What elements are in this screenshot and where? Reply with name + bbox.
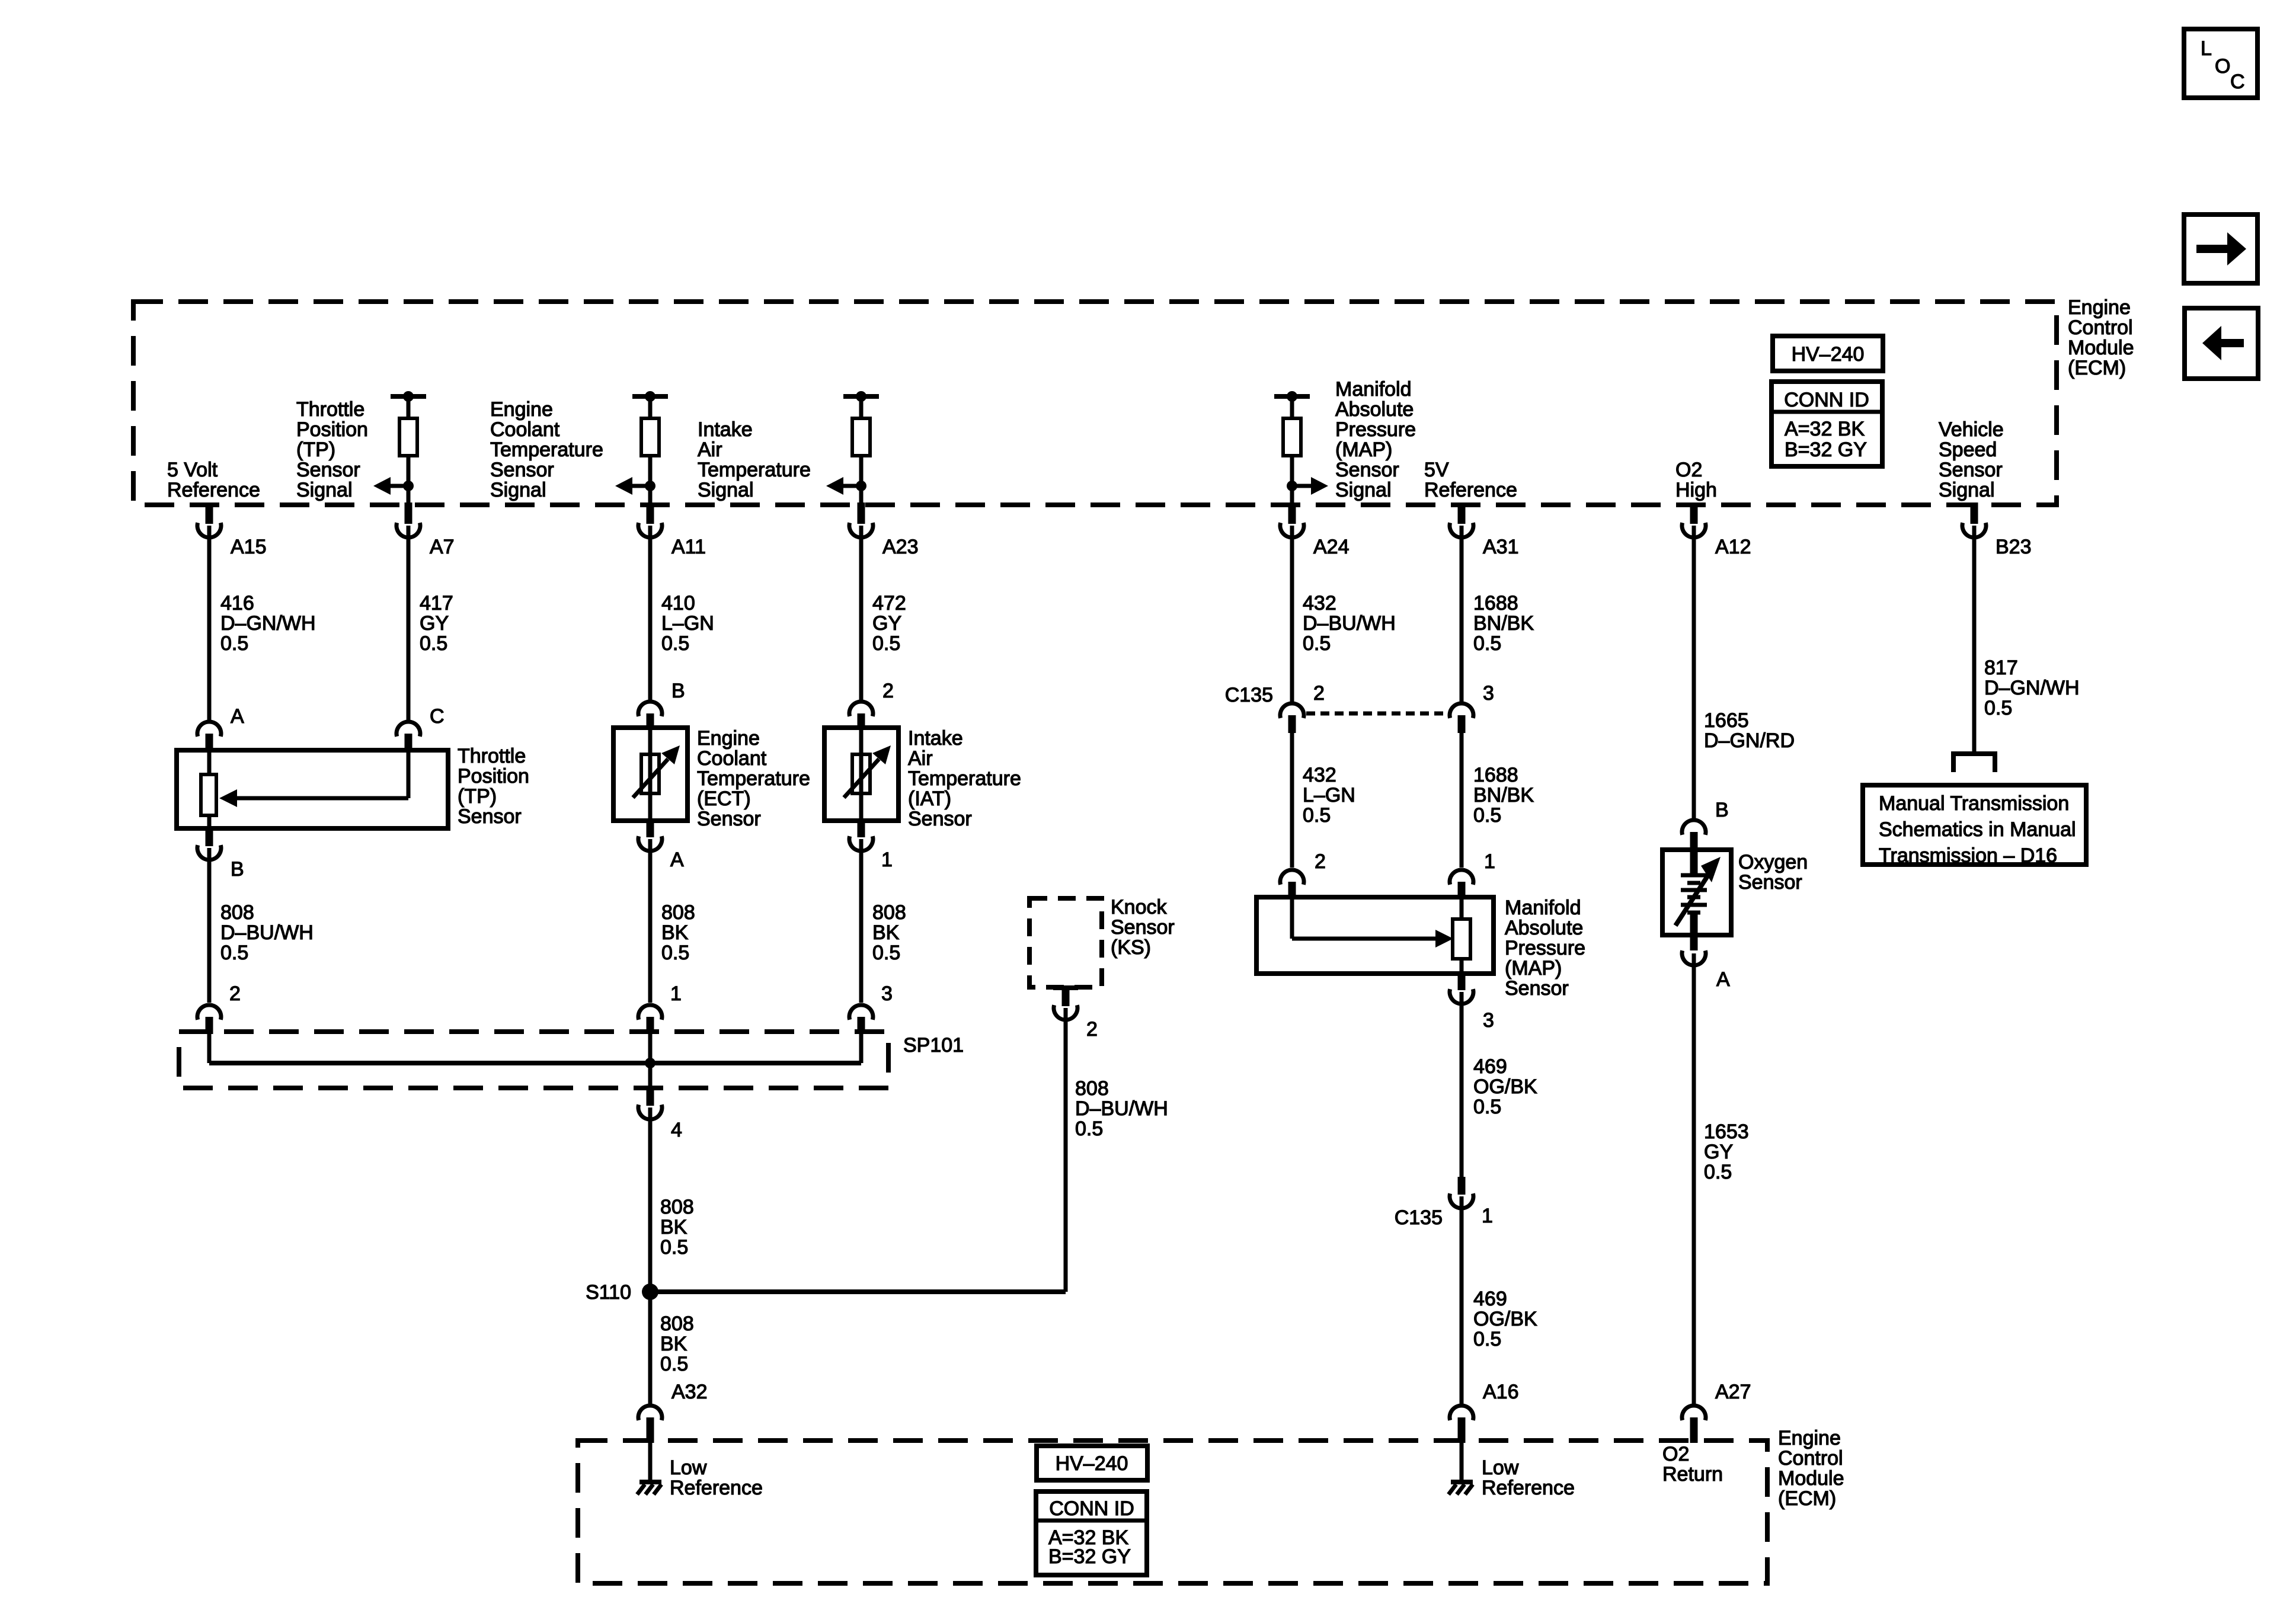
svg-text:0.5: 0.5 <box>1984 697 2012 719</box>
svg-text:1665: 1665 <box>1704 709 1749 732</box>
svg-text:CONN ID: CONN ID <box>1784 389 1869 411</box>
svg-text:A15: A15 <box>231 536 267 558</box>
svg-text:GY: GY <box>1704 1141 1733 1163</box>
svg-text:Position: Position <box>458 765 529 788</box>
svg-text:B: B <box>1715 799 1729 821</box>
svg-text:Absolute: Absolute <box>1335 398 1414 421</box>
svg-text:D–GN/WH: D–GN/WH <box>1984 677 2080 699</box>
svg-text:Pressure: Pressure <box>1505 937 1585 959</box>
svg-text:HV–240: HV–240 <box>1056 1452 1128 1475</box>
svg-text:B23: B23 <box>1996 536 2032 558</box>
svg-text:Engine: Engine <box>697 727 760 750</box>
svg-text:0.5: 0.5 <box>220 632 248 655</box>
svg-text:A11: A11 <box>671 536 706 558</box>
svg-text:C135: C135 <box>1395 1206 1443 1229</box>
svg-text:D–GN/WH: D–GN/WH <box>220 612 316 635</box>
svg-text:A16: A16 <box>1483 1381 1519 1403</box>
svg-text:Coolant: Coolant <box>697 747 767 770</box>
svg-text:Sensor: Sensor <box>1738 871 1802 894</box>
svg-text:BK: BK <box>872 921 900 944</box>
svg-text:A: A <box>1716 968 1730 991</box>
svg-text:417: 417 <box>420 592 453 614</box>
svg-text:2: 2 <box>1086 1018 1098 1041</box>
svg-text:0.5: 0.5 <box>1473 1096 1501 1118</box>
svg-text:Vehicle: Vehicle <box>1939 418 2004 441</box>
svg-text:A=32 BK: A=32 BK <box>1785 418 1865 440</box>
svg-text:Sensor: Sensor <box>1505 977 1569 1000</box>
svg-text:469: 469 <box>1473 1055 1507 1078</box>
svg-text:BK: BK <box>660 1216 687 1238</box>
svg-text:B=32 GY: B=32 GY <box>1785 438 1867 461</box>
svg-text:C135: C135 <box>1225 684 1273 706</box>
svg-text:Pressure: Pressure <box>1335 418 1416 441</box>
svg-text:B: B <box>671 680 685 702</box>
svg-text:Temperature: Temperature <box>490 438 603 461</box>
svg-text:0.5: 0.5 <box>1473 632 1501 655</box>
svg-text:0.5: 0.5 <box>1704 1161 1732 1183</box>
svg-text:Manifold: Manifold <box>1505 897 1581 919</box>
svg-text:0.5: 0.5 <box>660 1236 688 1259</box>
svg-text:Module: Module <box>1778 1467 1844 1490</box>
svg-text:BK: BK <box>661 921 689 944</box>
svg-text:1: 1 <box>670 982 682 1005</box>
svg-text:A: A <box>231 705 244 728</box>
svg-text:3: 3 <box>1483 682 1494 705</box>
svg-text:2: 2 <box>1313 682 1325 705</box>
svg-text:(TP): (TP) <box>296 438 335 461</box>
svg-text:D–BU/WH: D–BU/WH <box>1303 612 1396 635</box>
svg-text:1: 1 <box>881 849 893 871</box>
svg-text:A32: A32 <box>671 1381 708 1403</box>
svg-text:808: 808 <box>660 1313 694 1335</box>
svg-text:0.5: 0.5 <box>661 632 689 655</box>
svg-text:0.5: 0.5 <box>1303 804 1331 827</box>
svg-text:3: 3 <box>1483 1009 1494 1032</box>
svg-text:Reference: Reference <box>167 479 260 501</box>
svg-text:808: 808 <box>1075 1077 1109 1100</box>
svg-text:L–GN: L–GN <box>661 612 714 635</box>
svg-text:D–BU/WH: D–BU/WH <box>1075 1097 1168 1120</box>
svg-text:(MAP): (MAP) <box>1335 438 1392 461</box>
svg-text:D–BU/WH: D–BU/WH <box>220 921 314 944</box>
svg-text:410: 410 <box>661 592 695 614</box>
svg-text:0.5: 0.5 <box>1075 1118 1103 1140</box>
svg-text:O2: O2 <box>1675 459 1702 481</box>
svg-text:C: C <box>430 705 445 728</box>
svg-text:817: 817 <box>1984 657 2018 679</box>
svg-text:OG/BK: OG/BK <box>1473 1308 1537 1330</box>
svg-text:A12: A12 <box>1715 536 1751 558</box>
svg-text:Signal: Signal <box>296 479 353 501</box>
svg-text:O2: O2 <box>1662 1443 1689 1465</box>
svg-text:Signal: Signal <box>698 479 754 501</box>
svg-text:4: 4 <box>671 1119 682 1141</box>
svg-text:472: 472 <box>872 592 906 614</box>
svg-text:5V: 5V <box>1424 459 1449 481</box>
svg-text:0.5: 0.5 <box>661 942 689 964</box>
svg-text:Intake: Intake <box>698 418 753 441</box>
svg-text:432: 432 <box>1303 592 1336 614</box>
svg-text:GY: GY <box>872 612 901 635</box>
svg-text:1: 1 <box>1484 850 1495 873</box>
svg-text:Signal: Signal <box>1939 479 1995 501</box>
svg-text:SP101: SP101 <box>903 1034 964 1057</box>
svg-text:GY: GY <box>420 612 449 635</box>
svg-text:A: A <box>670 849 684 871</box>
svg-text:(TP): (TP) <box>458 785 497 808</box>
svg-text:Transmission – D16: Transmission – D16 <box>1879 844 2057 867</box>
svg-text:BN/BK: BN/BK <box>1473 784 1534 806</box>
svg-text:A23: A23 <box>882 536 919 558</box>
svg-text:3: 3 <box>881 982 893 1005</box>
svg-text:Control: Control <box>2068 316 2133 339</box>
svg-text:Manifold: Manifold <box>1335 378 1412 401</box>
svg-text:808: 808 <box>220 901 254 924</box>
svg-text:2: 2 <box>1315 850 1326 873</box>
svg-text:808: 808 <box>661 901 695 924</box>
svg-text:1688: 1688 <box>1473 592 1518 614</box>
svg-text:Reference: Reference <box>1424 479 1517 501</box>
svg-text:L–GN: L–GN <box>1303 784 1355 806</box>
svg-text:High: High <box>1675 479 1717 501</box>
svg-text:Oxygen: Oxygen <box>1738 851 1808 873</box>
svg-text:0.5: 0.5 <box>660 1353 688 1375</box>
svg-text:Temperature: Temperature <box>698 459 811 481</box>
svg-text:O: O <box>2215 55 2230 78</box>
svg-text:808: 808 <box>872 901 906 924</box>
svg-text:Reference: Reference <box>1482 1477 1575 1499</box>
svg-text:Sensor: Sensor <box>697 808 761 830</box>
svg-text:0.5: 0.5 <box>872 632 900 655</box>
svg-text:Temperature: Temperature <box>908 767 1021 790</box>
svg-text:Schematics in Manual: Schematics in Manual <box>1879 818 2076 841</box>
svg-text:B: B <box>231 858 244 881</box>
svg-text:Reference: Reference <box>670 1477 763 1499</box>
svg-text:808: 808 <box>660 1196 694 1218</box>
svg-text:S110: S110 <box>586 1281 631 1304</box>
svg-text:BK: BK <box>660 1333 687 1355</box>
svg-text:CONN ID: CONN ID <box>1049 1497 1134 1520</box>
svg-text:Sensor: Sensor <box>458 805 522 828</box>
svg-text:OG/BK: OG/BK <box>1473 1076 1537 1098</box>
svg-text:Sensor: Sensor <box>1939 459 2003 481</box>
svg-text:Air: Air <box>698 438 722 461</box>
svg-text:Coolant: Coolant <box>490 418 560 441</box>
svg-text:0.5: 0.5 <box>872 942 900 964</box>
svg-text:Low: Low <box>1482 1457 1519 1479</box>
svg-text:2: 2 <box>882 680 894 702</box>
svg-text:Engine: Engine <box>2068 296 2131 319</box>
svg-text:0.5: 0.5 <box>420 632 447 655</box>
svg-text:Temperature: Temperature <box>697 767 810 790</box>
svg-text:(ECM): (ECM) <box>1778 1487 1836 1510</box>
svg-text:Manual Transmission: Manual Transmission <box>1879 792 2069 815</box>
svg-text:(ECM): (ECM) <box>2068 357 2126 379</box>
svg-text:Sensor: Sensor <box>1335 459 1399 481</box>
svg-text:1: 1 <box>1482 1205 1493 1227</box>
svg-text:Sensor: Sensor <box>490 459 554 481</box>
svg-text:L: L <box>2201 37 2212 60</box>
svg-text:C: C <box>2230 71 2245 93</box>
svg-text:D–GN/RD: D–GN/RD <box>1704 729 1795 752</box>
svg-text:(IAT): (IAT) <box>908 788 951 810</box>
svg-text:BN/BK: BN/BK <box>1473 612 1534 635</box>
svg-text:Speed: Speed <box>1939 438 1997 461</box>
svg-text:Return: Return <box>1662 1463 1723 1486</box>
svg-text:0.5: 0.5 <box>220 942 248 964</box>
svg-text:469: 469 <box>1473 1288 1507 1310</box>
svg-text:Signal: Signal <box>1335 479 1392 501</box>
svg-text:Knock: Knock <box>1111 896 1167 918</box>
svg-text:432: 432 <box>1303 764 1336 786</box>
svg-text:(KS): (KS) <box>1111 936 1151 959</box>
svg-text:Throttle: Throttle <box>458 745 526 767</box>
svg-text:Intake: Intake <box>908 727 963 750</box>
svg-text:5 Volt: 5 Volt <box>167 459 218 481</box>
svg-text:1688: 1688 <box>1473 764 1518 786</box>
svg-text:A24: A24 <box>1313 536 1350 558</box>
svg-text:Engine: Engine <box>1778 1427 1841 1449</box>
svg-text:Throttle: Throttle <box>296 398 364 421</box>
svg-text:Position: Position <box>296 418 368 441</box>
svg-text:Air: Air <box>908 747 933 770</box>
svg-text:Signal: Signal <box>490 479 546 501</box>
svg-text:Absolute: Absolute <box>1505 917 1583 939</box>
svg-text:0.5: 0.5 <box>1473 1328 1501 1350</box>
svg-text:1653: 1653 <box>1704 1121 1749 1143</box>
svg-text:Control: Control <box>1778 1447 1843 1470</box>
svg-text:Sensor: Sensor <box>296 459 360 481</box>
svg-text:HV–240: HV–240 <box>1792 343 1865 366</box>
svg-text:Low: Low <box>670 1457 707 1479</box>
svg-text:A7: A7 <box>430 536 455 558</box>
svg-text:0.5: 0.5 <box>1473 804 1501 827</box>
svg-text:A27: A27 <box>1715 1381 1751 1403</box>
svg-text:Sensor: Sensor <box>908 808 972 830</box>
svg-text:Engine: Engine <box>490 398 553 421</box>
svg-text:416: 416 <box>220 592 254 614</box>
svg-text:2: 2 <box>229 982 241 1005</box>
svg-text:Module: Module <box>2068 337 2134 359</box>
svg-text:(MAP): (MAP) <box>1505 957 1562 980</box>
svg-text:B=32 GY: B=32 GY <box>1048 1545 1131 1568</box>
svg-text:A31: A31 <box>1483 536 1519 558</box>
svg-text:(ECT): (ECT) <box>697 788 751 810</box>
svg-text:0.5: 0.5 <box>1303 632 1331 655</box>
svg-text:Sensor: Sensor <box>1111 916 1175 939</box>
